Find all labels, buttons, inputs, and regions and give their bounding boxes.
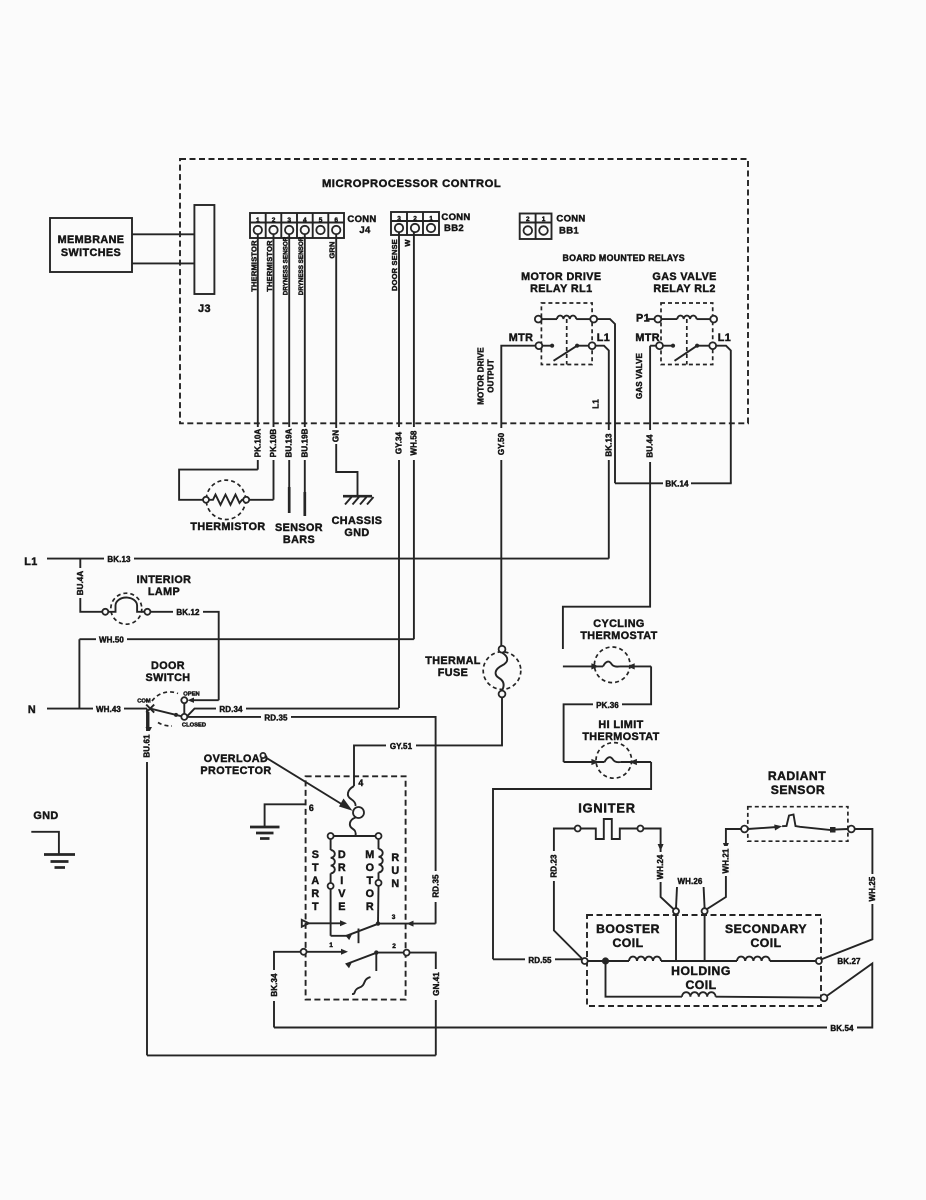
svg-text:GY.50: GY.50 <box>497 432 506 455</box>
svg-text:WH.21: WH.21 <box>721 848 730 873</box>
svg-text:L1: L1 <box>718 332 731 344</box>
wire label GN <box>332 428 340 444</box>
cycling thermostat <box>563 647 651 683</box>
wire label PK.10B <box>270 427 278 460</box>
svg-text:HOLDING: HOLDING <box>671 964 731 978</box>
wire N line <box>47 708 147 710</box>
svg-text:GAS VALVE: GAS VALVE <box>635 352 644 399</box>
wire WH.25 <box>822 829 873 959</box>
svg-text:3: 3 <box>392 914 396 921</box>
svg-text:RD.35: RD.35 <box>432 874 441 898</box>
svg-text:HI LIMIT: HI LIMIT <box>598 719 643 731</box>
svg-text:BB1: BB1 <box>559 226 579 237</box>
svg-text:THERMOSTAT: THERMOSTAT <box>582 731 659 743</box>
svg-text:BK.13: BK.13 <box>107 555 131 564</box>
svg-text:COM: COM <box>137 699 151 705</box>
svg-text:RD.55: RD.55 <box>528 956 552 965</box>
svg-text:CONN: CONN <box>556 214 585 225</box>
wire row A to RD.35 <box>378 923 436 925</box>
svg-text:5: 5 <box>319 217 323 224</box>
radiant sensor <box>741 807 855 842</box>
svg-text:MEMBRANE: MEMBRANE <box>58 234 125 246</box>
svg-text:OVERLOAD: OVERLOAD <box>204 753 268 765</box>
relay RL2 <box>648 303 717 365</box>
svg-text:WH.24: WH.24 <box>656 854 665 879</box>
wire booster to taps <box>661 960 737 962</box>
svg-text:MTR: MTR <box>635 332 660 344</box>
svg-text:DOOR SENSE: DOOR SENSE <box>390 239 399 291</box>
wire label GY.50 <box>498 428 506 460</box>
svg-text:BOARD MOUNTED RELAYS: BOARD MOUNTED RELAYS <box>562 253 685 263</box>
wire RL2 L1 down <box>716 346 731 484</box>
label WH.26 <box>671 875 711 886</box>
wire BK.13 from RL1 L1 <box>596 346 609 559</box>
svg-text:BU.19A: BU.19A <box>285 428 294 457</box>
svg-text:GAS VALVE: GAS VALVE <box>652 271 716 283</box>
sensor bar left <box>288 487 291 513</box>
wire BU.61 down <box>146 709 148 1056</box>
wire secondary to right terminal <box>770 960 816 962</box>
svg-text:4: 4 <box>303 217 307 224</box>
svg-text:L1: L1 <box>592 399 601 409</box>
svg-text:R: R <box>338 862 346 874</box>
svg-text:SENSOR: SENSOR <box>771 783 825 797</box>
wire hi-limit to RD.55 <box>493 762 651 959</box>
svg-text:L1: L1 <box>597 332 610 344</box>
svg-text:N: N <box>28 704 36 716</box>
svg-text:RD.35: RD.35 <box>264 713 288 722</box>
sensor bar right <box>303 492 306 516</box>
microprocessor control dashed box <box>180 159 748 423</box>
wire BU.44 / gas valve <box>563 346 650 649</box>
svg-text:T: T <box>312 901 319 913</box>
svg-text:R: R <box>366 901 374 913</box>
interior lamp <box>102 593 150 624</box>
wire label BK.13 vertical <box>605 430 613 460</box>
svg-text:GRN: GRN <box>328 241 337 258</box>
wire label BK.13 on L1 <box>104 553 134 564</box>
svg-text:L1: L1 <box>24 556 37 568</box>
junction dot booster <box>602 957 609 964</box>
svg-text:O: O <box>366 862 375 874</box>
svg-text:6: 6 <box>309 803 314 813</box>
svg-text:SWITCHES: SWITCHES <box>61 247 121 259</box>
switch row A contact 5 <box>302 920 309 927</box>
svg-text:BK.54: BK.54 <box>830 1024 854 1033</box>
svg-text:RELAY RL1: RELAY RL1 <box>530 283 592 295</box>
svg-text:V: V <box>338 888 346 900</box>
overload protector device <box>348 786 356 806</box>
wire GY.50 motor drive output <box>501 346 535 646</box>
start winding <box>330 839 332 850</box>
wire WH.21 <box>706 829 741 910</box>
connector J3 <box>194 205 214 294</box>
secondary coil <box>737 957 770 961</box>
membrane switches box <box>50 218 132 272</box>
svg-text:GND: GND <box>33 810 58 822</box>
svg-text:BK.34: BK.34 <box>270 973 279 997</box>
svg-text:N: N <box>391 878 399 890</box>
wire WH.50 drop to N <box>78 639 80 708</box>
wire thermistor to pin2 <box>249 499 273 501</box>
wire BU.4A drop to lamp <box>80 559 102 612</box>
svg-text:THERMISTOR: THERMISTOR <box>265 240 274 292</box>
svg-text:OPEN: OPEN <box>183 692 199 698</box>
door switch <box>146 692 219 734</box>
wire BB2 pin3 down (GY.34 / door sense) <box>398 232 400 708</box>
svg-text:THERMISTOR: THERMISTOR <box>190 521 265 533</box>
connector BB2 <box>391 212 439 235</box>
svg-text:WH.50: WH.50 <box>99 636 124 645</box>
svg-text:BK.13: BK.13 <box>604 433 613 457</box>
svg-text:DRYNESS SENSOR: DRYNESS SENSOR <box>298 236 305 295</box>
svg-text:BK.14: BK.14 <box>665 480 689 489</box>
wire label BU.44 <box>646 430 654 462</box>
node RD.55 terminal <box>582 958 588 964</box>
svg-text:J3: J3 <box>198 303 211 315</box>
wire WH.26 stubs <box>676 887 677 908</box>
hi limit thermostat <box>564 743 652 779</box>
wire bottom return <box>147 1054 436 1056</box>
motor winding top node <box>331 835 379 837</box>
svg-text:M: M <box>365 849 374 861</box>
svg-text:CHASSIS: CHASSIS <box>332 515 383 527</box>
svg-text:S: S <box>312 849 320 861</box>
svg-text:WH.58: WH.58 <box>409 430 418 455</box>
svg-text:BK.27: BK.27 <box>837 957 861 966</box>
wire GY.51 fuse bottom to motor term4 <box>354 697 502 786</box>
wire BK.12 lamp to door switch <box>150 612 218 700</box>
thermal fuse <box>483 646 521 698</box>
wire BK.54 <box>274 964 872 1028</box>
chassis ground (motor) <box>250 827 280 839</box>
wire membrane to J3 lower <box>132 262 194 264</box>
wire BB2 pin2 down (WH.58) <box>413 232 415 639</box>
svg-text:2: 2 <box>272 217 276 224</box>
svg-text:P1: P1 <box>636 313 650 325</box>
svg-text:O: O <box>366 888 375 900</box>
svg-text:3: 3 <box>397 216 401 223</box>
svg-text:A: A <box>311 875 319 887</box>
holding coil <box>682 992 716 997</box>
wire J4 pin6 down to chassis gnd <box>336 234 357 496</box>
wire label WH.58 <box>410 427 418 460</box>
svg-text:2: 2 <box>526 216 530 223</box>
svg-text:SWITCH: SWITCH <box>146 672 191 684</box>
centrifugal actuator <box>352 977 371 994</box>
svg-text:U: U <box>391 865 399 877</box>
svg-text:CONN: CONN <box>441 212 470 223</box>
svg-text:MOTOR DRIVE: MOTOR DRIVE <box>521 271 601 283</box>
svg-text:DOOR: DOOR <box>151 660 185 672</box>
svg-text:BB2: BB2 <box>444 223 464 234</box>
svg-text:GN: GN <box>332 430 341 442</box>
switch row A arm <box>345 934 352 941</box>
svg-text:THERMOSTAT: THERMOSTAT <box>580 630 657 642</box>
connector J4 <box>250 213 344 238</box>
svg-text:GY.51: GY.51 <box>390 742 413 751</box>
svg-text:CONN: CONN <box>347 214 376 225</box>
svg-text:DRYNESS SENSOR: DRYNESS SENSOR <box>283 236 290 295</box>
relay RL1 <box>535 303 597 365</box>
svg-text:PROTECTOR: PROTECTOR <box>200 765 271 777</box>
wire tap left <box>675 914 677 961</box>
svg-text:PK.36: PK.36 <box>596 701 619 710</box>
main winding <box>378 839 380 849</box>
wire WH.24 <box>643 829 674 910</box>
svg-text:T: T <box>312 862 319 874</box>
coil box dashed <box>587 915 821 1006</box>
wire J4 pin4 down (sensor bar) <box>304 234 306 492</box>
svg-text:COIL: COIL <box>750 936 781 950</box>
center tap circles <box>673 908 679 914</box>
svg-text:RADIANT: RADIANT <box>768 769 826 783</box>
wire L1 line <box>47 558 609 560</box>
svg-text:WH.43: WH.43 <box>96 705 121 714</box>
svg-text:T: T <box>367 875 374 887</box>
svg-text:WH.25: WH.25 <box>868 876 877 901</box>
svg-text:BU.44: BU.44 <box>646 434 655 458</box>
wire RD.35 <box>187 717 435 924</box>
svg-text:D: D <box>338 849 346 861</box>
wire J4 pin3 down (sensor bar) <box>288 234 290 487</box>
wire tap right <box>704 914 706 961</box>
wire cycling to hi-limit PK.36 <box>564 666 652 762</box>
connector BB1 <box>520 214 552 240</box>
wire J4 pin1 down <box>257 234 259 469</box>
wire RD.23 <box>554 829 582 959</box>
wire WH.50 <box>79 638 414 640</box>
svg-text:RD.34: RD.34 <box>219 705 243 714</box>
svg-text:RD.23: RD.23 <box>549 854 558 878</box>
svg-text:SENSOR: SENSOR <box>275 522 323 534</box>
svg-text:R: R <box>311 888 319 900</box>
svg-text:6: 6 <box>334 217 338 224</box>
svg-text:COIL: COIL <box>612 936 643 950</box>
svg-text:1: 1 <box>256 217 260 224</box>
svg-text:BU.4A: BU.4A <box>76 571 85 596</box>
svg-text:PK.10A: PK.10A <box>253 429 262 458</box>
svg-text:THERMAL: THERMAL <box>425 655 481 667</box>
svg-text:CYCLING: CYCLING <box>593 618 644 630</box>
thermistor <box>203 480 249 519</box>
igniter <box>575 819 644 839</box>
svg-text:2: 2 <box>413 216 417 223</box>
svg-text:BU.61: BU.61 <box>143 734 152 758</box>
motor box dashed <box>306 776 406 999</box>
ground GND left <box>31 810 75 868</box>
svg-text:PK.10B: PK.10B <box>269 429 278 458</box>
svg-text:RELAY RL2: RELAY RL2 <box>653 283 715 295</box>
svg-text:MOTOR DRIVE: MOTOR DRIVE <box>477 347 486 405</box>
switch row B arm <box>345 962 352 969</box>
wire booster feed <box>588 960 629 962</box>
svg-text:E: E <box>338 901 346 913</box>
svg-text:THERMISTOR: THERMISTOR <box>249 240 258 292</box>
wire row B to contact 2 <box>376 952 403 954</box>
svg-text:J4: J4 <box>359 225 371 236</box>
svg-text:WH.26: WH.26 <box>678 877 703 886</box>
svg-text:1: 1 <box>329 942 333 949</box>
svg-text:COIL: COIL <box>685 978 716 992</box>
svg-text:MICROPROCESSOR CONTROL: MICROPROCESSOR CONTROL <box>322 178 501 190</box>
wire RD.55 <box>493 958 582 960</box>
svg-text:BU.19B: BU.19B <box>300 428 309 457</box>
wire label PK.10A <box>254 427 262 460</box>
wire membrane to J3 upper <box>132 233 194 235</box>
switch row B contact 1 <box>301 949 307 955</box>
wire J4 pin2 down <box>273 234 275 500</box>
chassis ground (sensor) <box>343 496 374 504</box>
svg-text:BOOSTER: BOOSTER <box>596 922 660 936</box>
svg-text:R: R <box>391 852 399 864</box>
svg-text:1: 1 <box>542 216 546 223</box>
overload pointer arrow <box>260 753 265 758</box>
svg-text:GN.41: GN.41 <box>432 972 441 996</box>
wire terminal 6 to chassis gnd <box>265 804 306 827</box>
svg-text:MTR: MTR <box>509 332 534 344</box>
wire RL1 coil to BK.14 <box>597 319 615 483</box>
svg-text:GY.34: GY.34 <box>395 431 404 454</box>
wire label BU.19B <box>301 427 309 460</box>
svg-text:OUTPUT: OUTPUT <box>487 359 496 393</box>
svg-text:W: W <box>403 239 412 247</box>
svg-text:1: 1 <box>429 216 433 223</box>
wire RD.34 <box>187 709 399 717</box>
booster coil <box>629 957 661 961</box>
wire BK.14 <box>615 482 732 484</box>
svg-text:2: 2 <box>392 943 396 950</box>
svg-text:BK.12: BK.12 <box>176 608 200 617</box>
svg-text:3: 3 <box>287 217 291 224</box>
svg-text:IGNITER: IGNITER <box>578 801 636 816</box>
wire label BU.4A <box>77 568 85 598</box>
wire GN.41 <box>410 953 436 1056</box>
svg-text:LAMP: LAMP <box>148 586 180 598</box>
svg-text:INTERIOR: INTERIOR <box>137 574 192 586</box>
svg-text:4: 4 <box>358 778 363 788</box>
svg-text:SECONDARY: SECONDARY <box>725 922 807 936</box>
thermistor loop wire <box>179 470 258 500</box>
wire label GY.34 <box>395 427 403 460</box>
wire label BU.19A <box>285 427 293 460</box>
wire BK.34 <box>274 952 301 1028</box>
svg-text:I: I <box>340 875 343 887</box>
svg-text:GND: GND <box>344 527 369 539</box>
svg-text:BARS: BARS <box>283 534 315 546</box>
wire holding to right <box>716 996 821 999</box>
holding coil wire <box>606 961 683 997</box>
svg-text:FUSE: FUSE <box>438 667 468 679</box>
svg-text:CLOSED: CLOSED <box>182 723 206 729</box>
